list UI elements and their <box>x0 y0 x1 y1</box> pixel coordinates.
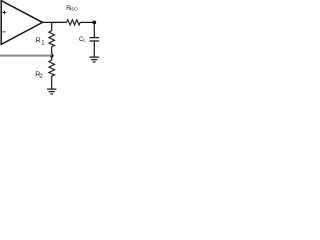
node: feedback junction dot <box>50 54 54 58</box>
wire: node down to CL <box>93 22 95 37</box>
op-amp non-inverting input + <box>2 11 6 15</box>
wire: R2 to ground <box>51 76 53 89</box>
op-amp U1 <box>1 1 42 45</box>
wire: RISO to load node <box>80 21 95 23</box>
svg-text:L: L <box>83 38 86 44</box>
svg-text:ISO: ISO <box>70 7 78 12</box>
ground (below R2) <box>47 89 56 94</box>
resistor R1 <box>49 31 55 47</box>
node: load junction dot <box>92 21 96 25</box>
svg-text:1: 1 <box>41 41 45 47</box>
wire: op-amp output <box>43 21 67 23</box>
resistor RISO <box>67 20 81 25</box>
wire: feedback tap down from output <box>51 22 53 30</box>
op-amp inverting input - <box>3 31 6 33</box>
wire: R1 to node <box>51 47 53 56</box>
wire: node to R2 <box>51 56 53 60</box>
svg-text:R: R <box>36 37 41 44</box>
resistor R2 <box>49 60 55 76</box>
wire: feedback to inverting input <box>0 54 52 56</box>
ground (below CL) <box>89 57 99 62</box>
svg-text:2: 2 <box>39 74 43 80</box>
wire: CL to ground <box>93 42 95 57</box>
capacitor CL <box>89 38 99 41</box>
